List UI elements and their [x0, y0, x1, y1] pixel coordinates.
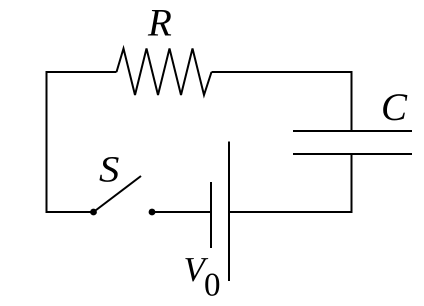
capacitor C top plate — [293, 130, 412, 132]
capacitor C bottom plate — [293, 153, 412, 155]
svg-text:R: R — [147, 2, 172, 45]
wire: top-left horizontal segment — [46, 71, 117, 73]
wire: battery short plate to switch right node — [152, 211, 211, 213]
battery V0 short plate (negative) — [210, 182, 212, 248]
wire: bottom-right horizontal (battery to right branch) — [229, 211, 353, 213]
battery V0 long plate (positive) — [228, 142, 230, 282]
svg-text:C: C — [381, 86, 408, 129]
node: switch left terminal dot — [90, 209, 97, 216]
label V0 — [184, 250, 221, 304]
wire: left vertical branch — [46, 71, 48, 213]
svg-text:0: 0 — [204, 268, 221, 304]
svg-text:S: S — [99, 150, 119, 191]
wire: bottom-left horizontal to switch — [46, 211, 94, 213]
switch S blade (open) — [94, 176, 142, 212]
resistor R (zigzag) — [117, 49, 212, 96]
wire: right vertical lower (capacitor to bottom) — [351, 154, 353, 213]
node: switch right terminal dot — [149, 209, 156, 216]
wire: right vertical upper (to capacitor) — [351, 71, 353, 131]
wire: top-right horizontal segment — [212, 71, 353, 73]
